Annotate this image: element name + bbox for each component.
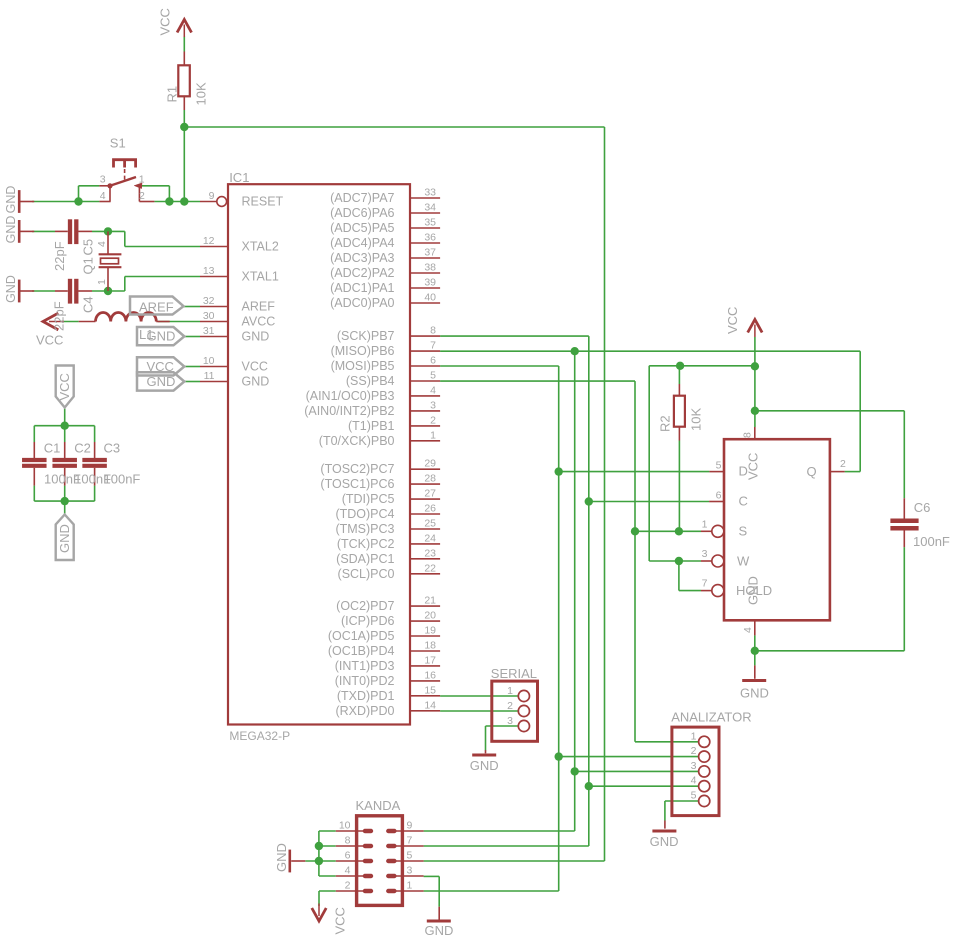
svg-text:C1: C1 [44, 441, 61, 456]
svg-text:2: 2 [430, 414, 436, 426]
svg-text:16: 16 [424, 669, 436, 681]
svg-text:5: 5 [430, 370, 436, 382]
svg-text:GND: GND [242, 375, 270, 389]
svg-text:1: 1 [139, 174, 145, 186]
svg-text:(INT0)PD2: (INT0)PD2 [335, 674, 395, 688]
svg-text:VCC: VCC [147, 359, 174, 374]
svg-text:GND: GND [650, 834, 679, 849]
svg-text:(ADC1)PA1: (ADC1)PA1 [330, 281, 394, 295]
svg-text:34: 34 [424, 202, 436, 214]
svg-text:(ADC4)PA4: (ADC4)PA4 [330, 236, 394, 250]
svg-text:(TDO)PC4: (TDO)PC4 [335, 507, 394, 521]
svg-text:2: 2 [840, 458, 846, 470]
svg-text:10K: 10K [689, 408, 704, 431]
svg-text:S: S [739, 523, 748, 538]
svg-text:(INT1)PD3: (INT1)PD3 [335, 659, 395, 673]
svg-text:XTAL1: XTAL1 [242, 270, 279, 284]
svg-text:MEGA32-P: MEGA32-P [229, 729, 290, 743]
svg-text:23: 23 [424, 547, 436, 559]
svg-text:D: D [739, 464, 748, 479]
svg-text:(ADC7)PA7: (ADC7)PA7 [330, 191, 394, 205]
svg-text:6: 6 [430, 355, 436, 367]
svg-text:100nF: 100nF [104, 472, 141, 487]
svg-text:(OC1B)PD4: (OC1B)PD4 [328, 644, 395, 658]
svg-text:39: 39 [424, 277, 436, 289]
svg-text:4: 4 [100, 190, 106, 202]
svg-text:3: 3 [507, 715, 513, 727]
svg-text:C: C [739, 493, 748, 508]
svg-text:GND: GND [147, 328, 176, 343]
svg-text:RESET: RESET [242, 195, 284, 209]
svg-text:VCC: VCC [242, 360, 268, 374]
svg-text:C6: C6 [914, 500, 931, 515]
svg-text:6: 6 [716, 490, 722, 502]
svg-text:2: 2 [139, 190, 145, 202]
svg-text:7: 7 [407, 835, 413, 847]
svg-text:7: 7 [430, 340, 436, 352]
svg-text:AREF: AREF [242, 300, 276, 314]
svg-text:IC1: IC1 [229, 170, 249, 185]
svg-text:6: 6 [345, 850, 351, 862]
svg-text:10: 10 [203, 355, 215, 367]
svg-text:26: 26 [424, 503, 436, 515]
svg-text:22: 22 [424, 562, 436, 574]
svg-text:(OC2)PD7: (OC2)PD7 [336, 599, 394, 613]
svg-text:AVCC: AVCC [242, 315, 276, 329]
svg-text:11: 11 [204, 370, 215, 382]
svg-text:9: 9 [209, 190, 215, 202]
svg-text:(T1)PB1: (T1)PB1 [348, 419, 395, 433]
svg-text:36: 36 [424, 232, 436, 244]
svg-text:XTAL2: XTAL2 [242, 240, 279, 254]
svg-text:9: 9 [407, 820, 413, 832]
svg-text:(TMS)PC3: (TMS)PC3 [335, 522, 394, 536]
svg-text:22pF: 22pF [52, 241, 67, 271]
svg-text:29: 29 [424, 458, 436, 470]
svg-text:C4: C4 [81, 296, 96, 313]
svg-text:35: 35 [424, 217, 436, 229]
svg-text:GND: GND [470, 758, 499, 773]
svg-text:(TXD)PD1: (TXD)PD1 [337, 689, 395, 703]
svg-text:5: 5 [691, 790, 697, 802]
svg-text:3: 3 [407, 865, 413, 877]
svg-text:2: 2 [691, 745, 697, 757]
svg-text:(TOSC2)PC7: (TOSC2)PC7 [320, 462, 394, 476]
svg-text:4: 4 [96, 241, 108, 247]
svg-text:C3: C3 [104, 441, 121, 456]
svg-text:21: 21 [424, 595, 436, 607]
svg-text:R1: R1 [165, 86, 180, 103]
svg-text:24: 24 [424, 532, 436, 544]
svg-text:(TCK)PC2: (TCK)PC2 [337, 537, 395, 551]
svg-text:(AIN1/OC0)PB3: (AIN1/OC0)PB3 [306, 389, 395, 403]
svg-text:8: 8 [430, 325, 436, 337]
svg-text:19: 19 [424, 625, 436, 637]
svg-text:14: 14 [424, 699, 436, 711]
svg-text:22pF: 22pF [52, 301, 67, 331]
svg-text:(SS)PB4: (SS)PB4 [346, 374, 395, 388]
svg-text:VCC: VCC [36, 333, 63, 348]
svg-text:20: 20 [424, 610, 436, 622]
svg-text:(ICP)PD6: (ICP)PD6 [341, 614, 395, 628]
svg-text:28: 28 [424, 473, 436, 485]
svg-text:GND: GND [57, 524, 72, 553]
svg-text:4: 4 [742, 627, 754, 633]
svg-text:VCC: VCC [333, 907, 348, 934]
svg-text:27: 27 [424, 488, 436, 500]
svg-text:4: 4 [430, 384, 436, 396]
svg-text:1: 1 [430, 429, 436, 441]
svg-text:Q1: Q1 [81, 257, 96, 274]
svg-text:1: 1 [702, 518, 708, 530]
svg-text:10: 10 [339, 820, 351, 832]
svg-text:3: 3 [100, 174, 106, 186]
svg-text:GND: GND [274, 843, 289, 872]
svg-text:31: 31 [203, 325, 215, 337]
svg-text:AREF: AREF [139, 300, 174, 315]
svg-text:1: 1 [507, 685, 513, 697]
svg-text:HOLD: HOLD [736, 583, 772, 598]
svg-text:(MOSI)PB5: (MOSI)PB5 [331, 359, 395, 373]
svg-text:4: 4 [345, 865, 351, 877]
svg-text:5: 5 [407, 850, 413, 862]
svg-text:C2: C2 [74, 441, 91, 456]
svg-text:C5: C5 [81, 239, 96, 256]
svg-text:5: 5 [716, 460, 722, 472]
svg-text:18: 18 [424, 640, 436, 652]
svg-text:3: 3 [691, 760, 697, 772]
svg-text:30: 30 [203, 310, 215, 322]
svg-text:2: 2 [345, 880, 351, 892]
svg-text:25: 25 [424, 518, 436, 530]
svg-text:(MISO)PB6: (MISO)PB6 [331, 344, 395, 358]
svg-text:(SCL)PC0: (SCL)PC0 [338, 567, 395, 581]
svg-text:ANALIZATOR: ANALIZATOR [671, 709, 751, 724]
svg-text:VCC: VCC [158, 8, 173, 35]
svg-text:GND: GND [740, 685, 769, 700]
svg-text:40: 40 [424, 292, 436, 304]
svg-text:GND: GND [242, 330, 270, 344]
svg-text:1: 1 [96, 279, 108, 285]
svg-text:VCC: VCC [725, 307, 740, 334]
svg-text:12: 12 [203, 235, 215, 247]
svg-text:GND: GND [4, 216, 18, 244]
svg-text:GND: GND [424, 923, 453, 938]
svg-text:(ADC6)PA6: (ADC6)PA6 [330, 206, 394, 220]
svg-text:10K: 10K [194, 82, 209, 105]
svg-text:(SDA)PC1: (SDA)PC1 [336, 552, 394, 566]
svg-text:(TOSC1)PC6: (TOSC1)PC6 [320, 477, 394, 491]
svg-text:4: 4 [691, 775, 697, 787]
svg-text:13: 13 [203, 265, 215, 277]
svg-text:(SCK)PB7: (SCK)PB7 [337, 329, 395, 343]
svg-text:SERIAL: SERIAL [491, 666, 537, 681]
svg-text:38: 38 [424, 262, 436, 274]
svg-text:GND: GND [4, 275, 18, 303]
svg-text:(OC1A)PD5: (OC1A)PD5 [328, 629, 395, 643]
svg-text:KANDA: KANDA [356, 798, 401, 813]
svg-text:7: 7 [702, 578, 708, 590]
svg-text:GND: GND [147, 374, 176, 389]
svg-text:32: 32 [203, 295, 215, 307]
svg-text:(ADC2)PA2: (ADC2)PA2 [330, 266, 394, 280]
svg-text:37: 37 [424, 247, 436, 259]
svg-text:(ADC0)PA0: (ADC0)PA0 [330, 296, 394, 310]
svg-text:Q: Q [807, 464, 817, 479]
svg-text:2: 2 [507, 700, 513, 712]
svg-text:S1: S1 [110, 135, 126, 150]
svg-text:17: 17 [424, 654, 436, 666]
svg-text:15: 15 [424, 684, 436, 696]
svg-text:(T0/XCK)PB0: (T0/XCK)PB0 [319, 434, 395, 448]
svg-text:(TDI)PC5: (TDI)PC5 [342, 492, 395, 506]
svg-text:8: 8 [742, 432, 754, 438]
svg-text:3: 3 [430, 399, 436, 411]
svg-text:VCC: VCC [57, 373, 72, 400]
svg-text:1: 1 [407, 880, 413, 892]
svg-text:3: 3 [702, 548, 708, 560]
svg-text:(RXD)PD0: (RXD)PD0 [335, 704, 394, 718]
svg-text:(ADC5)PA5: (ADC5)PA5 [330, 221, 394, 235]
svg-text:1: 1 [691, 730, 697, 742]
svg-text:8: 8 [345, 835, 351, 847]
svg-text:W: W [737, 554, 750, 569]
svg-text:33: 33 [424, 187, 436, 199]
svg-text:GND: GND [4, 186, 18, 214]
svg-text:(ADC3)PA3: (ADC3)PA3 [330, 251, 394, 265]
svg-text:100nF: 100nF [913, 534, 950, 549]
svg-text:R2: R2 [658, 415, 673, 432]
svg-text:(AIN0/INT2)PB2: (AIN0/INT2)PB2 [304, 404, 394, 418]
